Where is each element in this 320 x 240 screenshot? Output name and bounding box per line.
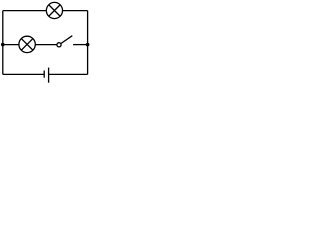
lamp L1 top circle xyxy=(46,2,62,18)
wire middle between lamp and switch xyxy=(35,44,57,46)
wire top right segment xyxy=(63,10,88,12)
battery B1 negative short plate xyxy=(43,71,45,78)
lamp L2 cross xyxy=(21,39,33,51)
wire bottom right segment xyxy=(49,73,88,75)
wire bottom left segment xyxy=(3,73,44,75)
lamp L1 cross xyxy=(49,5,60,16)
wire top left segment xyxy=(3,10,47,12)
node junction right xyxy=(86,43,90,47)
wire middle right stub after switch xyxy=(73,44,88,46)
battery B1 positive tall plate xyxy=(48,68,50,83)
lamp L2 middle circle xyxy=(19,36,35,52)
wire left vertical xyxy=(2,11,4,75)
wire right vertical xyxy=(87,11,89,75)
switch S1 pivot circle xyxy=(57,43,61,47)
node junction left xyxy=(1,43,5,47)
wire middle left segment xyxy=(3,44,19,46)
switch S1 lever xyxy=(61,36,73,44)
